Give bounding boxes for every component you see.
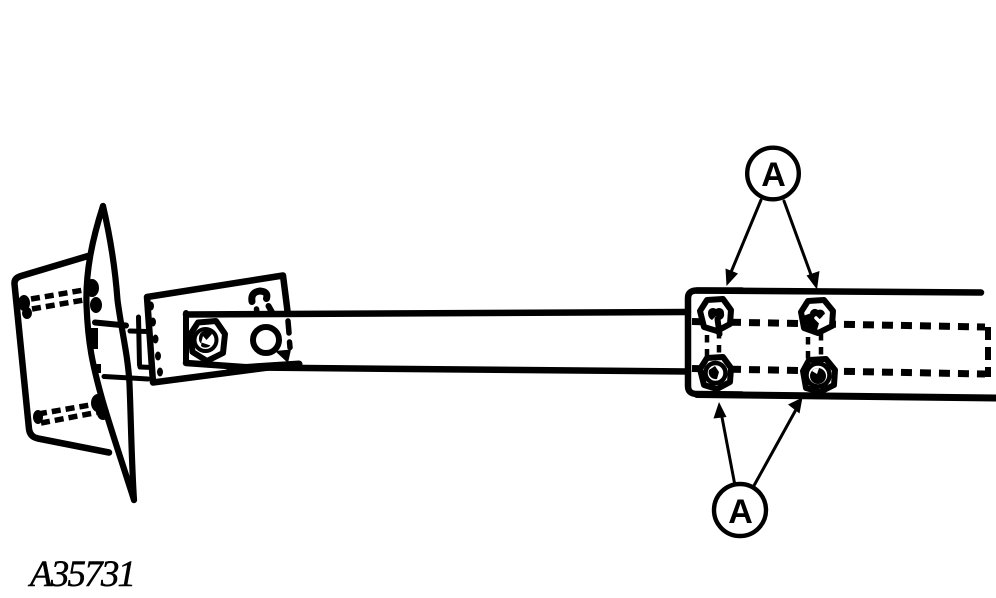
svg-text:A: A [728, 493, 753, 531]
svg-text:A: A [761, 156, 786, 194]
svg-text:A35731: A35731 [27, 554, 136, 595]
